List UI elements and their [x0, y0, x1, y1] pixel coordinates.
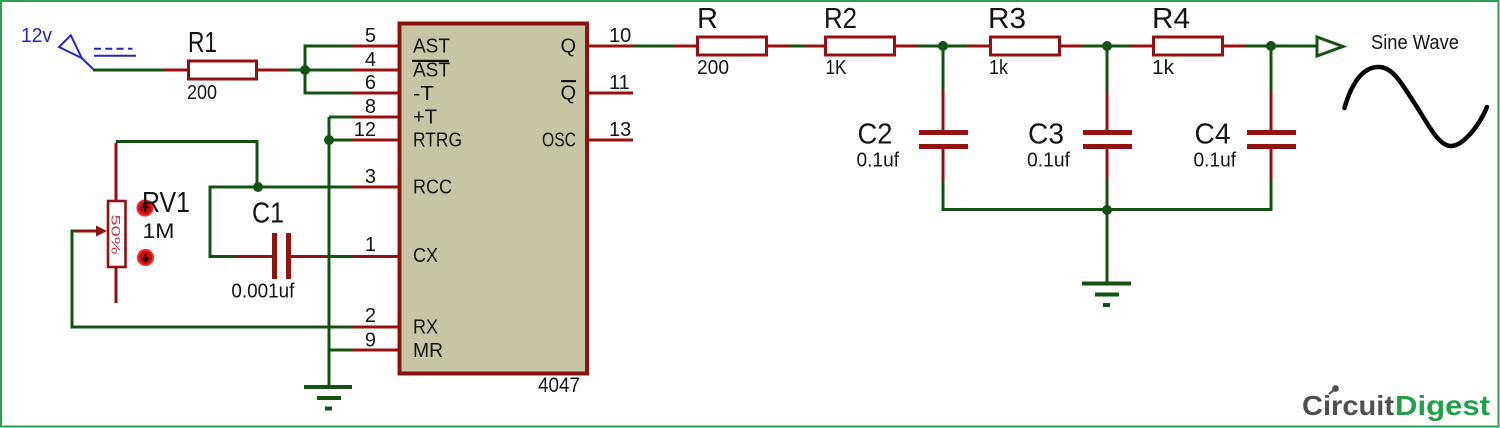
capacitor C4 bottom wire — [1270, 180, 1273, 209]
svg-text:Q: Q — [560, 83, 576, 105]
pin 12 stub — [351, 139, 398, 142]
wire 12v to R1 — [93, 69, 165, 72]
capacitor C3 top lead — [1106, 91, 1109, 131]
resistor R1 body — [189, 61, 257, 79]
wire ground stem — [1106, 210, 1109, 283]
potentiometer RV1 top lead — [115, 143, 118, 202]
svg-text:4: 4 — [365, 49, 376, 71]
junction pin 12 — [324, 135, 334, 145]
svg-text:8: 8 — [365, 96, 376, 118]
capacitor C1 right lead — [290, 255, 327, 258]
wire C1 to pin 1 — [326, 255, 351, 258]
capacitor C4 plates — [1247, 133, 1296, 147]
CircuitDigest logo — [1302, 385, 1490, 421]
svg-text:4047: 4047 — [538, 374, 580, 397]
capacitor C1 left lead — [235, 255, 273, 258]
pin 6 stub — [351, 92, 398, 95]
resistor R1 lead left — [164, 69, 188, 72]
resistor R lead right — [768, 45, 791, 48]
svg-text:R3: R3 — [988, 3, 1026, 35]
op-amp U1 4047 IC body — [400, 24, 588, 374]
svg-text:0.1uf: 0.1uf — [1194, 150, 1237, 172]
svg-text:12: 12 — [354, 119, 376, 141]
pin 10 stub — [586, 45, 633, 48]
svg-text:Circuit: Circuit — [1302, 390, 1394, 421]
capacitor C3 bottom lead — [1106, 148, 1109, 181]
svg-text:1: 1 — [365, 234, 376, 256]
junction node C — [1102, 41, 1112, 51]
potentiometer RV1 body — [108, 201, 126, 267]
wire wiper to RX — [72, 231, 351, 327]
logo node glyph over first i — [1329, 389, 1335, 394]
svg-text:3: 3 — [365, 166, 376, 188]
capacitor C2 top lead — [942, 91, 945, 131]
wire pin 8 branch — [329, 116, 351, 119]
capacitor C1 plates — [275, 233, 289, 279]
wire R2 to node B — [918, 45, 968, 48]
power source 12v connector symbol — [59, 35, 136, 69]
wire pin 12 branch — [329, 139, 351, 142]
resistor R1 lead right — [258, 69, 288, 72]
svg-text:Sine Wave: Sine Wave — [1371, 32, 1459, 54]
resistor R2 body — [826, 37, 895, 55]
wire R to R2 — [790, 45, 807, 48]
wire to pin 5 — [304, 45, 352, 48]
junction node B — [938, 41, 948, 51]
pin 5 stub — [351, 45, 398, 48]
resistor R4 lead right — [1224, 45, 1247, 48]
capacitor C1 left wire — [210, 186, 236, 257]
node A junction — [300, 65, 310, 75]
svg-text:5: 5 — [365, 25, 376, 47]
svg-text:0.1uf: 0.1uf — [857, 150, 900, 172]
resistor R2 lead right — [896, 45, 919, 48]
wire R3 to node C — [1082, 45, 1130, 48]
svg-text:10: 10 — [609, 25, 631, 47]
svg-text:1K: 1K — [826, 57, 848, 79]
svg-text:+T: +T — [413, 107, 437, 129]
potentiometer RV1 bottom lead — [115, 267, 118, 303]
resistor R3 lead right — [1061, 45, 1083, 48]
svg-text:RX: RX — [413, 317, 438, 339]
pin 3 stub — [351, 186, 398, 189]
svg-text:R2: R2 — [824, 3, 857, 35]
svg-text:RV1: RV1 — [142, 187, 190, 219]
pin 13 stub — [586, 139, 633, 142]
svg-text:R: R — [697, 3, 718, 35]
svg-text:11: 11 — [609, 72, 630, 94]
svg-text:50%: 50% — [109, 215, 123, 256]
svg-text:MR: MR — [413, 340, 443, 362]
output arrow — [1317, 37, 1343, 56]
wire RV1 top to RCC node — [116, 142, 257, 188]
svg-text:0.1uf: 0.1uf — [1027, 150, 1070, 172]
svg-text:1k: 1k — [989, 57, 1009, 79]
capacitor C4 top lead — [1270, 91, 1273, 131]
resistor R2 lead left — [806, 45, 825, 48]
svg-text:OSC: OSC — [542, 130, 576, 152]
svg-text:1M: 1M — [143, 220, 175, 243]
svg-text:C4: C4 — [1195, 119, 1231, 151]
svg-text:RTRG: RTRG — [413, 130, 462, 152]
capacitor C4 top wire — [1270, 46, 1273, 92]
RV1 increment button — [138, 201, 153, 216]
svg-text:C2: C2 — [858, 119, 893, 151]
svg-text:CX: CX — [413, 245, 438, 267]
svg-text:2: 2 — [365, 305, 376, 327]
svg-text:AST: AST — [413, 60, 450, 82]
capacitor C2 plates — [919, 133, 968, 147]
capacitor C3 bottom wire — [1106, 180, 1109, 209]
svg-text:C1: C1 — [252, 198, 284, 230]
RV1 decrement button — [138, 250, 153, 265]
wire pin 9 branch — [329, 349, 351, 352]
resistor R4 lead left — [1129, 45, 1153, 48]
svg-text:6: 6 — [365, 72, 376, 94]
svg-text:AST: AST — [413, 36, 450, 58]
svg-text:0.001uf: 0.001uf — [231, 281, 294, 303]
svg-text:13: 13 — [609, 119, 631, 141]
pin 1 stub — [351, 255, 398, 258]
capacitor C2 bottom lead — [942, 148, 945, 181]
wire ground bus bottom — [942, 208, 1273, 211]
ground symbol right — [1082, 284, 1131, 306]
capacitor C2 top wire — [942, 46, 945, 92]
wire to pin 6 — [304, 92, 352, 95]
svg-text:200: 200 — [697, 57, 729, 79]
svg-text:12v: 12v — [21, 25, 52, 47]
wire ground net vertical (pins 8,12,9) — [328, 117, 331, 386]
sine wave curve — [1345, 67, 1488, 146]
svg-text:RCC: RCC — [413, 177, 452, 199]
svg-text:-T: -T — [413, 83, 434, 105]
pin 2 stub — [351, 326, 398, 329]
capacitor C3 plates — [1083, 133, 1132, 147]
wire RCC horizontal — [210, 186, 351, 189]
ground symbol left — [304, 387, 352, 409]
junction ground node — [1102, 205, 1112, 215]
svg-text:1k: 1k — [1152, 57, 1175, 79]
capacitor C4 bottom lead — [1270, 148, 1273, 181]
svg-text:R4: R4 — [1152, 3, 1190, 35]
resistor R body — [698, 37, 767, 55]
pin 9 stub — [351, 349, 398, 352]
svg-text:Q: Q — [560, 36, 576, 58]
resistor R4 body — [1154, 37, 1223, 55]
wire pin 10 to R — [633, 45, 674, 48]
svg-text:200: 200 — [187, 82, 217, 104]
junction node D — [1266, 41, 1276, 51]
resistor R lead left — [673, 45, 697, 48]
capacitor C2 bottom wire — [942, 180, 945, 209]
pin 4 stub — [351, 69, 398, 72]
svg-text:C3: C3 — [1028, 119, 1064, 151]
wire node A vertical branch — [304, 46, 307, 93]
svg-text:Digest: Digest — [1395, 390, 1490, 421]
svg-text:9: 9 — [365, 330, 376, 352]
pin 11 stub — [586, 92, 633, 95]
wire R4 to output — [1246, 45, 1317, 48]
resistor R3 body — [991, 37, 1060, 55]
potentiometer RV1 wiper arrow — [75, 230, 98, 233]
junction RCC node — [253, 182, 263, 192]
wire R1 to node A — [287, 69, 351, 72]
resistor R3 lead left — [967, 45, 990, 48]
pin 8 stub — [351, 116, 398, 119]
svg-text:R1: R1 — [188, 27, 217, 59]
capacitor C3 top wire — [1106, 46, 1109, 92]
